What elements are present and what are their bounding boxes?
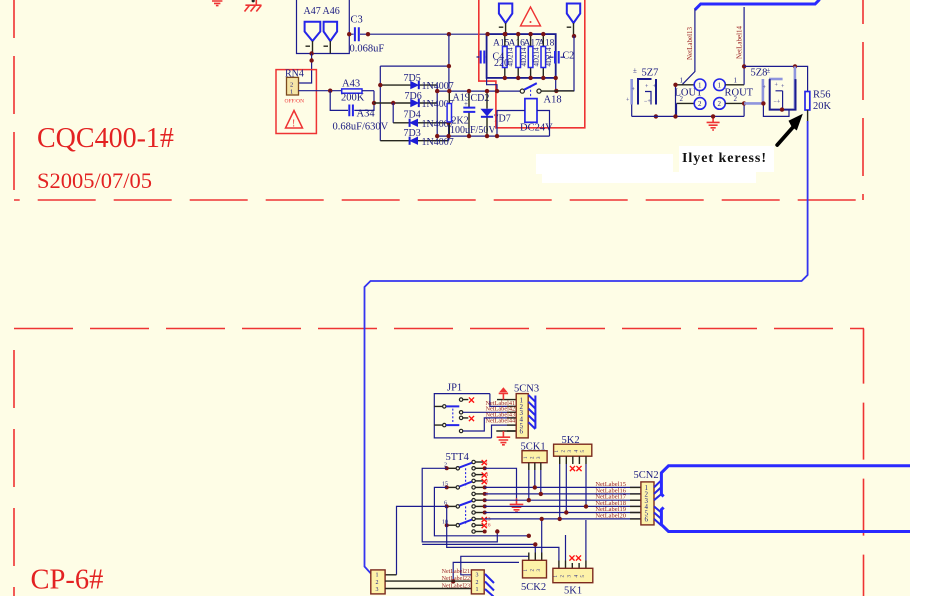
switch bank 5TT4 (442, 452, 470, 526)
svg-text:✕: ✕ (575, 465, 583, 475)
svg-text:NetLabel20: NetLabel20 (595, 512, 626, 519)
svg-text:2: 2 (376, 580, 379, 586)
svg-text:C2: C2 (563, 51, 575, 62)
svg-text:A43: A43 (342, 79, 360, 90)
svg-text:±: ± (633, 67, 637, 75)
diode 7D5 1N4007 (378, 73, 454, 92)
net NetLabel13 (682, 9, 695, 85)
svg-text:A46: A46 (323, 6, 340, 17)
fuse A47 (304, 6, 321, 54)
svg-text:7D3: 7D3 (404, 128, 421, 139)
svg-text:CQC400-1#: CQC400-1# (37, 123, 174, 154)
net wire NetLabel18 (485, 505, 641, 507)
connector LOUT (673, 77, 706, 119)
svg-text:5K1: 5K1 (564, 586, 582, 596)
svg-text:2: 2 (680, 95, 684, 103)
svg-text:NetLabel21: NetLabel21 (442, 569, 470, 575)
svg-text:✕: ✕ (468, 397, 476, 407)
svg-text:2: 2 (290, 82, 293, 89)
svg-text:5Z8: 5Z8 (751, 68, 768, 79)
power flag (VCC) (499, 387, 508, 399)
varistor A17 (528, 32, 540, 80)
svg-text:100uF/50V: 100uF/50V (450, 125, 496, 136)
white correction rectangles (536, 154, 673, 174)
svg-text:ROUT: ROUT (725, 87, 754, 98)
relay 5CK1 (521, 441, 548, 502)
svg-text:A47: A47 (304, 6, 321, 17)
wire bottom bus (437, 135, 549, 137)
wire to R56 (744, 66, 808, 91)
svg-text:4D214: 4D214 (520, 47, 528, 67)
thick blue feeder (top) (695, 0, 820, 10)
connector P1 (left 3-pin) (371, 570, 385, 594)
svg-text:1: 1 (734, 77, 738, 85)
white margin strip right (910, 0, 939, 596)
wire to RN4 (299, 54, 312, 84)
wire pole1 to bus (422, 468, 497, 542)
jack 5Z7 (626, 67, 658, 119)
svg-text:1: 1 (476, 587, 479, 593)
wire pole3 to connector (397, 506, 447, 574)
wire audio common bus (632, 115, 744, 117)
svg-text:✕: ✕ (468, 415, 476, 425)
varistor A16 (516, 32, 528, 80)
svg-text:1: 1 (680, 77, 684, 85)
svg-text:13: 13 (486, 517, 492, 522)
svg-text:7D4: 7D4 (404, 110, 421, 121)
svg-text:0.068uF: 0.068uF (350, 44, 385, 55)
svg-text:±: ± (767, 67, 771, 75)
svg-text:NetLabel44: NetLabel44 (485, 418, 516, 425)
connector 5CN2 (634, 470, 662, 526)
svg-text:−+: −+ (644, 99, 651, 105)
svg-text:20K: 20K (813, 101, 832, 112)
svg-text:220: 220 (494, 58, 509, 69)
wire long route R56 to CP board (365, 121, 808, 574)
svg-text:NetLabel23: NetLabel23 (442, 584, 470, 590)
wire pole2 to 5CK2 (434, 487, 528, 535)
capacitor C4 220 (477, 32, 510, 69)
relay 5K1 (553, 520, 593, 596)
net wire NetLabel19 (485, 512, 641, 514)
svg-text:A18: A18 (544, 95, 562, 106)
svg-text:NetLabel14: NetLabel14 (736, 25, 744, 59)
switch RN4 (276, 69, 316, 134)
thick blue bus to edge (661, 466, 910, 497)
capacitor CD2 100uF/50V (450, 89, 496, 138)
svg-text:5CN3: 5CN3 (514, 384, 539, 395)
wire pole3-pole4 link (446, 506, 448, 525)
varistor A18 (541, 32, 553, 80)
capacitor C3 0.068uF (347, 15, 487, 55)
5TT4 poles (445, 463, 472, 527)
ground (5TT4) (485, 468, 524, 512)
svg-text:1: 1 (376, 573, 379, 579)
svg-text:R56: R56 (813, 90, 831, 101)
capacitor C2 (548, 51, 574, 64)
svg-text:5Z7: 5Z7 (642, 68, 659, 79)
svg-text:2: 2 (698, 100, 702, 108)
svg-text:6: 6 (645, 516, 649, 524)
svg-text:C3: C3 (351, 15, 363, 26)
jumper JP1 (434, 383, 516, 438)
svg-text:DC24V: DC24V (520, 123, 553, 134)
svg-text:!: ! (292, 119, 295, 130)
capacitor A34 0.68uF/630V (330, 91, 388, 133)
varistor block A15-A18 (487, 34, 556, 78)
wire top bus (437, 90, 522, 92)
svg-text:NetLabel13: NetLabel13 (686, 26, 694, 60)
wires P1 to P2 (385, 581, 471, 588)
svg-text:2: 2 (718, 100, 722, 108)
ground below 5CN3 (497, 431, 511, 445)
relay 5CK2 (521, 517, 547, 593)
ground (chassis) top-left (245, 0, 262, 12)
wire aux to 5CK2 pin2 (422, 544, 535, 552)
wire pole4 to 5K1 (447, 525, 559, 560)
svg-text:3: 3 (476, 573, 479, 579)
resistor R56 20K (805, 90, 832, 122)
svg-text:5CN2: 5CN2 (634, 470, 659, 481)
svg-text:Ilyet keress!: Ilyet keress! (682, 151, 766, 166)
svg-text:−+: −+ (774, 100, 781, 106)
connector ROUT (714, 64, 754, 116)
net wire NetLabel16 (485, 493, 641, 495)
svg-text:S2005/07/05: S2005/07/05 (37, 168, 152, 193)
relay 5K2 (554, 435, 592, 521)
relay DC24V (495, 99, 553, 139)
net wire NetLabel15 (485, 486, 641, 488)
wire mains left loop (297, 0, 350, 54)
warning triangle (521, 7, 541, 26)
sheet border top (red dashed box CQC400-1#) (14, 0, 863, 200)
svg-text:5TT4: 5TT4 (446, 452, 470, 463)
diode 7D7 (480, 89, 510, 138)
svg-text:200K: 200K (341, 93, 365, 104)
ground (audio) (707, 114, 720, 130)
net wire NetLabel20 (485, 518, 641, 520)
wire 7D6-7D4 link (392, 103, 394, 123)
wire block bottom to switch (487, 78, 556, 91)
svg-text:16: 16 (486, 524, 492, 529)
resistor A19 2K2 (446, 89, 469, 138)
svg-text:OFF/ON: OFF/ON (285, 99, 305, 105)
svg-text:CP-6#: CP-6# (31, 565, 104, 596)
varistor A15 (503, 32, 515, 80)
red outline box (input group) (479, 0, 585, 128)
svg-text:4D214: 4D214 (533, 47, 541, 67)
svg-text:+: + (464, 100, 468, 108)
jack 5Z8 (744, 66, 795, 116)
ground (earth) top-left (212, 1, 222, 6)
fuse A46 (323, 6, 340, 54)
svg-text:6: 6 (520, 428, 524, 436)
diode 7D4 1N4007 (393, 110, 454, 130)
svg-text:NetLabel22: NetLabel22 (442, 576, 470, 582)
switch A18 (520, 83, 574, 105)
svg-text:1: 1 (718, 82, 722, 90)
svg-text:1: 1 (698, 82, 702, 90)
wire P2 pin2 branch (453, 562, 519, 581)
connector P2 (right 3-pin) (471, 570, 494, 596)
diode 7D3 1N4007 (380, 128, 453, 148)
node fuse common (309, 51, 313, 55)
net wire NetLabel17 (485, 499, 641, 501)
plug connector (left) (499, 4, 513, 37)
sheet border bottom (red dashed box CP-6#) (14, 329, 864, 596)
wire diode feed (380, 34, 449, 141)
svg-text:2: 2 (734, 95, 738, 103)
5TT4 contacts right column (472, 459, 491, 534)
svg-text:2: 2 (476, 580, 479, 586)
annotation arrow (777, 114, 803, 145)
svg-text:1: 1 (290, 89, 293, 96)
connector 5CN3 (514, 384, 539, 438)
svg-text:3: 3 (376, 587, 379, 593)
wire RN4 pin1 (299, 90, 342, 92)
diode 7D6 1N4007 (374, 91, 454, 110)
svg-text:A34: A34 (357, 109, 376, 120)
svg-text:JP1: JP1 (447, 383, 462, 394)
svg-text:5CK2: 5CK2 (521, 582, 546, 593)
wire rectifier output (437, 85, 448, 141)
wire P2 pin3 feed (461, 556, 529, 575)
resistor A43 200K (341, 79, 374, 104)
plug connector (right) (556, 4, 580, 91)
net NetLabel14 (736, 7, 745, 66)
